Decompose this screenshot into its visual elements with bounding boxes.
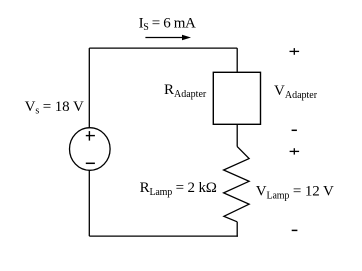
plus polarity of V_Lamp <box>290 148 300 154</box>
minus polarity of V_Adapter <box>292 129 297 131</box>
stem from box bottom to resistor <box>236 124 238 146</box>
current arrow Is <box>145 35 191 41</box>
svg-text:VLamp = 12 V: VLamp = 12 V <box>256 183 334 201</box>
adapter box (R_Adapter) <box>213 72 260 124</box>
minus polarity of V_Lamp <box>292 229 298 231</box>
left wire lower segment <box>88 170 90 236</box>
plus polarity of V_Adapter <box>290 48 300 55</box>
plus sign inside source <box>86 131 95 141</box>
resistor bottom lead to bottom wire <box>236 222 238 237</box>
voltage source Vs circle <box>70 128 111 171</box>
svg-text:Vs = 18 V: Vs = 18 V <box>25 99 84 117</box>
minus sign inside source <box>86 162 95 164</box>
left wire upper segment <box>88 48 90 128</box>
resistor R_Lamp zigzag <box>224 147 250 222</box>
bottom wire <box>89 235 238 237</box>
svg-text:VAdapter: VAdapter <box>274 83 318 101</box>
svg-text:IS = 6 mA: IS = 6 mA <box>139 16 196 34</box>
svg-text:RLamp = 2 kΩ: RLamp = 2 kΩ <box>140 180 217 198</box>
right stem from top wire to adapter box <box>236 48 238 72</box>
top wire <box>89 47 237 49</box>
svg-text:RAdapter: RAdapter <box>164 82 207 100</box>
